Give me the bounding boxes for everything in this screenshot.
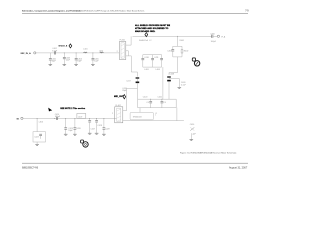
svg-text:C406: C406 (210, 34, 215, 36)
capacitor C401 (shunt) (49, 53, 57, 65)
filter FL401 (117, 40, 126, 60)
svg-text:L406: L406 (39, 121, 43, 123)
svg-text:C4: C4 (146, 102, 148, 104)
svg-text:C427: C427 (91, 129, 96, 131)
inductor L402 (series) (99, 50, 103, 53)
svg-text:L403: L403 (144, 69, 148, 71)
wire ladder right edge drop (162, 67, 164, 99)
notes text block (135, 24, 171, 33)
svg-text:C430: C430 (190, 124, 195, 126)
svg-text:18pF: 18pF (77, 61, 82, 63)
svg-text:IF_A: IF_A (221, 36, 226, 39)
svg-text:C407: C407 (167, 51, 172, 53)
svg-text:2: 2 (117, 51, 118, 53)
lower ladder network (138, 97, 177, 108)
capacitor C403 (shunt) (63, 52, 71, 64)
wire FL401 out bottom (long vertical) (126, 56, 138, 77)
svg-text:100pF: 100pF (55, 116, 61, 118)
svg-text:0.1uF: 0.1uF (181, 85, 187, 87)
filter FL402 (112, 105, 123, 123)
capacitor C424 (series) (54, 114, 61, 120)
header rule (22, 12, 248, 15)
svg-text:C428: C428 (97, 125, 102, 127)
svg-text:2: 2 (112, 113, 113, 115)
ground (178, 87, 182, 88)
capacitor C427 (shunt) (88, 118, 95, 133)
ground (73, 134, 77, 135)
svg-text:Figure 7-6. HUE4039A/HUE4043A: Figure 7-6. HUE4039A/HUE4043A Receiver M… (180, 151, 237, 154)
capacitor C406 (series, top right) (210, 34, 217, 43)
shield diamond SH4004 (123, 95, 126, 99)
wire FL401 out top (126, 36, 131, 45)
svg-text:R402: R402 (184, 51, 189, 53)
RC cell hanging from top wire (167, 36, 188, 75)
svg-text:August 31, 2007: August 31, 2007 (229, 166, 248, 169)
ground (74, 65, 78, 66)
ground (95, 133, 99, 134)
shield box SH4003 edges (140, 108, 177, 121)
ground (63, 65, 67, 66)
ground (190, 140, 194, 141)
svg-text:HUD4022J/HUD4025J (UHF Range 2: HUD4022J/HUD4025J (UHF Range 2) 25W-45W … (74, 9, 145, 12)
crystal Y401 (boxed) (33, 118, 46, 144)
svg-text:18pF: 18pF (68, 130, 73, 132)
svg-text:C429: C429 (105, 129, 110, 131)
shield diamond SH4001 (69, 44, 72, 48)
svg-text:7-9: 7-9 (245, 10, 249, 12)
capacitor C425 (shunt) (64, 118, 73, 134)
svg-text:C420: C420 (143, 97, 148, 99)
svg-text:C417: C417 (126, 80, 131, 82)
ground (102, 134, 106, 135)
footer rule (22, 162, 248, 165)
svg-text:12pF: 12pF (66, 60, 71, 62)
connector MIX out (217, 35, 226, 38)
label C431 (above FL402) (122, 88, 127, 92)
capacitor C426 (shunt) (74, 118, 81, 134)
wire top long (133, 35, 212, 37)
svg-text:8.2pF: 8.2pF (52, 50, 58, 52)
annotation arrow (dark cursor) (48, 108, 52, 112)
inductor L401 (series) (83, 48, 87, 53)
svg-text:C426: C426 (76, 128, 81, 130)
inductor L407 (series box) (77, 114, 86, 119)
svg-text:MIX_IN_A: MIX_IN_A (21, 52, 32, 55)
svg-text:Schematics, Component Location: Schematics, Component Location Diagrams,… (22, 9, 82, 12)
svg-text:E1: E1 (17, 118, 20, 120)
svg-text:18pF: 18pF (52, 61, 57, 63)
capacitor C408 (dark, mid drop) (167, 74, 174, 100)
shield diamond SH4002 (145, 33, 148, 37)
upper ladder network (141, 55, 163, 71)
header title text (22, 9, 249, 12)
svg-text:SH4002-A L2: SH4002-A L2 (139, 39, 151, 42)
capacitor C405 (shunt) (92, 52, 100, 64)
capacitor C428 (shunt) (95, 118, 102, 133)
varactor CR401 (190, 124, 197, 140)
svg-text:C410: C410 (144, 57, 149, 59)
wire FL402 out top (123, 89, 138, 111)
wire FL402 out bottom (123, 120, 184, 122)
wire top input (36, 52, 119, 54)
svg-text:ALL SHIELD GROUNDS MUST BE: ALL SHIELD GROUNDS MUST BE (135, 24, 171, 27)
svg-text:12pF: 12pF (94, 61, 99, 63)
svg-text:L404: L404 (156, 69, 160, 71)
ground (64, 134, 68, 135)
svg-text:MAIN BOARD GND.: MAIN BOARD GND. (135, 30, 156, 33)
svg-text:SEE NOTE 2 This section: SEE NOTE 2 This section (60, 107, 86, 110)
svg-text:ATTACHED AND SOLDERED TO: ATTACHED AND SOLDERED TO (135, 27, 169, 30)
wire branch right to ground (169, 79, 187, 88)
svg-text:L407: L407 (78, 116, 82, 118)
connector J401 (34, 52, 36, 54)
ground (91, 65, 95, 66)
svg-text:C4: C4 (163, 102, 165, 104)
svg-text:C408: C408 (170, 74, 175, 76)
svg-text:100pF: 100pF (211, 41, 217, 43)
svg-text:SH4003-B: SH4003-B (133, 117, 142, 119)
capacitor C404 (shunt) (75, 52, 83, 64)
svg-text:6881096C74-B: 6881096C74-B (22, 166, 38, 169)
label box SH4003-B (130, 112, 157, 119)
ground (35, 144, 39, 145)
svg-text:2.2pF: 2.2pF (191, 133, 197, 135)
connector E401 (21, 117, 23, 119)
capacitor C402 (series) (52, 48, 58, 54)
svg-text:C423: C423 (34, 136, 39, 138)
annotation stamp 2 (dark) (81, 140, 89, 147)
capacitor C429 (shunt) (103, 118, 110, 134)
svg-text:R401: R401 (180, 40, 185, 42)
svg-text:C411: C411 (154, 57, 158, 59)
wire bottom input (23, 117, 116, 119)
annotation stamp 1 (dark) (192, 58, 200, 66)
svg-text:SH4001-B: SH4001-B (58, 45, 67, 48)
wire FL401 mid stub (126, 51, 129, 56)
svg-text:L401: L401 (83, 48, 87, 50)
capacitor C417 (dark, on FL401 drop) (126, 78, 139, 99)
ground (49, 65, 53, 66)
ground (88, 133, 92, 134)
svg-text:1: 1 (155, 115, 156, 117)
svg-text:L2: L2 (155, 113, 157, 115)
svg-text:C421: C421 (158, 97, 163, 99)
